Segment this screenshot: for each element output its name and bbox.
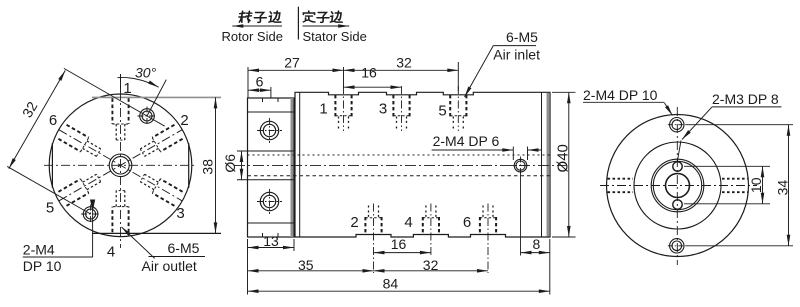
main centerline (234, 164, 566, 166)
svg-text:34: 34 (775, 180, 791, 196)
rotor port hole upper (side view) (260, 121, 278, 139)
stator tapped holes bottom row 2,4,6 (365, 204, 496, 274)
stator left inner ring line (299, 92, 301, 237)
svg-text:Ø6: Ø6 (222, 154, 238, 173)
word 定子边 (303, 11, 315, 22)
svg-text:3: 3 (176, 205, 184, 222)
dim 32 top line (344, 69, 459, 71)
stator right inner line (541, 92, 543, 237)
hole 4 centerline + extension (430, 204, 432, 256)
bore hidden dotted lines (248, 154, 550, 156)
right view M3 hole bottom (673, 200, 682, 209)
svg-text:1: 1 (319, 101, 327, 118)
rotor bore wall lines (237, 150, 294, 152)
svg-text:2-M4 DP 10: 2-M4 DP 10 (583, 87, 658, 103)
air inlet leader (465, 46, 494, 97)
dim 10: extensions + line (684, 165, 770, 167)
left view bottom flat edge (38-dim extension) (92, 232, 221, 234)
svg-text:5: 5 (46, 200, 54, 217)
left view vertical centerline (120, 74, 122, 248)
right view hub outer circle (651, 159, 704, 212)
label 6-M5 / Air inlet underline (493, 45, 536, 47)
dim 38: dimension line right of left view (215, 97, 217, 233)
svg-text:2-M4: 2-M4 (23, 242, 55, 258)
svg-text:8: 8 (533, 236, 541, 252)
label air outlet leader (122, 227, 155, 258)
dim 32 extension from bottom hole (7, 166, 90, 214)
header stator-side arrow (303, 25, 350, 27)
left view left flat edge (51, 143, 53, 188)
svg-text:2: 2 (180, 112, 188, 129)
right view hidden side hole left (608, 178, 634, 180)
svg-text:5: 5 (438, 103, 446, 120)
svg-text:16: 16 (361, 65, 377, 81)
svg-text:84: 84 (383, 276, 399, 292)
svg-text:Stator Side: Stator Side (303, 29, 367, 44)
hole 2 centerline + extension (373, 204, 375, 274)
svg-text:6-M5: 6-M5 (168, 240, 200, 256)
dim 32 extension beyond top hole (147, 116, 165, 126)
left view horizontal centerline (44, 164, 196, 166)
stator tapped holes top row 1,3,5 (335, 86, 466, 131)
side M4 DP6 hole on stator (514, 159, 527, 172)
label 2-M4 DP 6 underline + dim arrows (432, 149, 514, 151)
label 2-M4 DP10 leader (left view) (92, 206, 94, 257)
dim 30deg: angled leg through M4 hole (147, 80, 166, 116)
rotor port hole lower (side view) (260, 192, 278, 210)
svg-text:6: 6 (49, 112, 57, 129)
rotor top band line (248, 111, 295, 113)
left view six radial M5 passage spokes (dashed) (58, 98, 182, 232)
header rotor-side arrow (232, 25, 282, 27)
dim 30deg: vertical reference tick above circle (120, 74, 122, 92)
left view right flat edge (188, 143, 190, 188)
dim 34: extensions + line (686, 124, 794, 126)
svg-text:6-M5: 6-M5 (506, 29, 538, 45)
left view M4 hole bottom-left (83, 207, 98, 222)
right view vertical centerline (676, 107, 678, 265)
right view outer circle (607, 115, 749, 257)
svg-text:6: 6 (463, 214, 471, 231)
left view top flat edge (gray, also 38-dim extension) (92, 96, 221, 98)
dim 84 line (248, 290, 550, 292)
svg-text:2-M3 DP 8: 2-M3 DP 8 (712, 91, 779, 107)
svg-text:Rotor Side: Rotor Side (222, 29, 283, 44)
left view diagonal centerline 60deg (59, 130, 182, 201)
right view M4 screw hole bottom (670, 239, 684, 253)
svg-text:6: 6 (256, 74, 264, 90)
dim 32 bottom line (374, 270, 489, 272)
middle view dimension texts (222, 29, 572, 292)
stator body outline with counterbore notches top and bottom (295, 92, 550, 237)
dim Phi6: arrows left of rotor (241, 151, 243, 180)
rotor band ticks (262, 98, 264, 102)
svg-text:Air outlet: Air outlet (142, 258, 197, 274)
dim 27/32 top: extension lines (247, 67, 249, 98)
svg-text:2: 2 (350, 214, 358, 231)
svg-text:4: 4 (404, 214, 412, 231)
svg-text:32: 32 (423, 257, 439, 273)
stator right-face gray shading (547, 93, 550, 237)
svg-text:Air inlet: Air inlet (493, 47, 540, 63)
svg-text:30°: 30° (135, 65, 157, 81)
svg-text:4: 4 (107, 244, 115, 261)
svg-text:1: 1 (123, 80, 131, 97)
dim 30deg: arc with arrow (118, 77, 159, 87)
rotor bottom band line (248, 222, 295, 224)
right view hidden side hole right (722, 178, 748, 180)
left view center bore circle inner (112, 157, 129, 174)
dim 6 rotor: line + extension (270, 87, 272, 98)
label 2-M4 underline (23, 256, 93, 258)
middle view hole numbers (319, 101, 471, 232)
svg-text:38: 38 (200, 159, 216, 175)
right view horizontal centerline (600, 185, 757, 187)
right view bolt-face circle (634, 142, 721, 229)
right view center bore (666, 174, 690, 198)
bottom dims extension lines (247, 239, 249, 295)
right view M4 screw hole top (670, 118, 684, 132)
left view numbers (46, 80, 189, 261)
svg-text:32: 32 (19, 99, 41, 121)
right view hub inner circle (653, 161, 701, 209)
svg-text:DP 10: DP 10 (23, 258, 62, 274)
extension from side hole down to 8-dim (520, 173, 522, 256)
svg-text:Ø40: Ø40 (554, 144, 571, 172)
left view diagonal centerline 120deg (59, 130, 182, 201)
dim 8 bottom line (521, 252, 550, 254)
dim 32 (left view, aligned): extension from top hole (64, 68, 147, 116)
dim 27 line (248, 69, 344, 71)
label 2-M4 DP 10 underline + leader (583, 101, 665, 103)
dim 16 bottom line (374, 252, 431, 254)
label 2-M3 DP 8 underline + leader (712, 106, 782, 108)
dim 32 dimension line (9, 70, 66, 168)
svg-text:3: 3 (379, 101, 387, 118)
right view M3 hole top (673, 162, 682, 171)
left view M4 hole top-right (140, 109, 155, 124)
hole 6 centerline + extension (487, 204, 489, 274)
header rotor/stator divider line (297, 7, 299, 40)
dim Phi40: extensions + line (552, 91, 576, 93)
dim 35 line (248, 270, 374, 272)
rotor right-face gray shading (291, 98, 294, 237)
svg-text:32: 32 (396, 55, 412, 71)
svg-text:27: 27 (284, 55, 300, 71)
svg-text:10: 10 (748, 177, 764, 193)
svg-text:16: 16 (391, 236, 407, 252)
label 6-M5 air outlet underline (149, 256, 206, 258)
rotor body rectangle (248, 98, 295, 237)
svg-text:13: 13 (263, 233, 279, 249)
left view center bore circle outer (109, 154, 132, 177)
left view outer circle (stator flange silhouette) (49, 94, 192, 237)
svg-text:35: 35 (298, 257, 314, 273)
svg-text:2-M4 DP 6: 2-M4 DP 6 (433, 133, 500, 149)
word 转子边 (239, 11, 252, 22)
dim 16 top line (344, 86, 402, 88)
dim 13 line (248, 247, 295, 249)
